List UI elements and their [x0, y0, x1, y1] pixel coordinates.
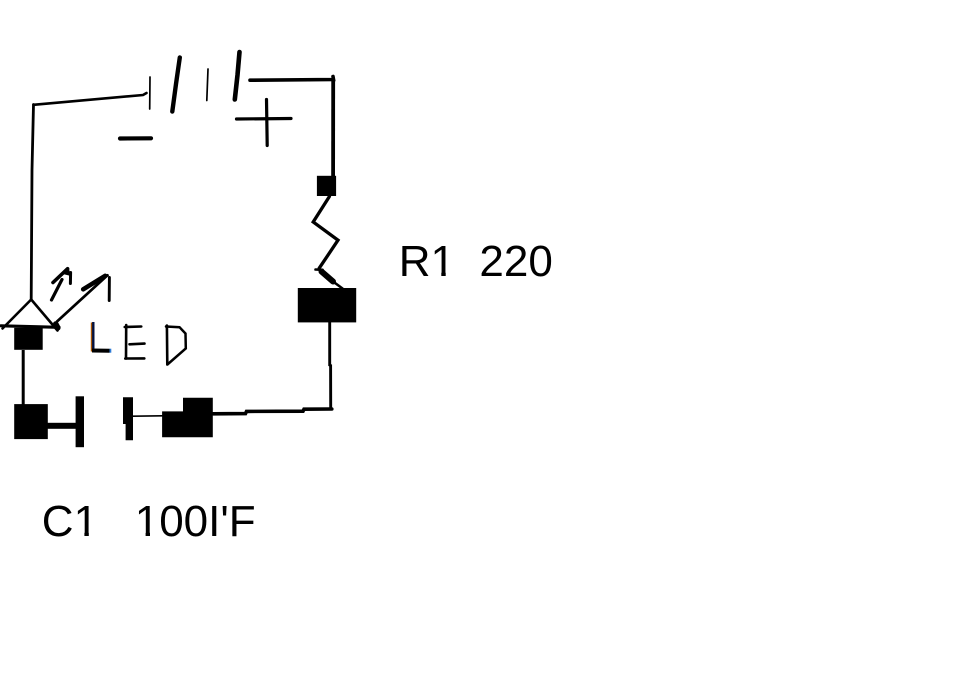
LED cathode terminal pad [14, 404, 48, 439]
svg-text:C1 100I'F: C1 100I'F [42, 497, 256, 546]
capacitor C1 right plate [123, 397, 133, 440]
minus sign (battery negative terminal) [120, 136, 151, 140]
handwritten letter L (with color fringe) [92, 322, 112, 352]
wire capacitor right plate to pad (thin) [133, 415, 162, 417]
handwritten letter D [166, 326, 186, 365]
wire LED cathode pad to capacitor left plate [46, 423, 76, 429]
wire right vertical down to resistor [331, 80, 335, 177]
plus sign (battery positive terminal) [237, 100, 292, 146]
label R1 220 [399, 237, 553, 286]
capacitor C1 right terminal pad [162, 398, 213, 438]
LED D1 body pad [14, 328, 43, 350]
battery B1 positive plate (long, right cell) [235, 52, 240, 100]
wire bottom horizontal (capacitor to resistor) [213, 409, 332, 414]
capacitor C1 left plate [76, 396, 84, 447]
battery B1 positive plate (long, slanted) [172, 58, 180, 112]
battery B1 negative plate (short, left) [149, 77, 151, 109]
wire LED to cathode pad [22, 350, 25, 405]
LED D1 triangle [3, 300, 58, 331]
label C1 100I'F [42, 497, 256, 546]
LED light arrow small [52, 267, 71, 300]
resistor R1 bottom terminal pad [298, 288, 356, 322]
LED light arrow large [56, 275, 110, 328]
resistor R1 zigzag body [313, 197, 342, 289]
resistor R1 top terminal pad [317, 176, 336, 196]
svg-text:R1 220: R1 220 [399, 237, 553, 286]
handwritten letter E [125, 325, 145, 359]
wire left vertical down to LED [31, 105, 33, 300]
wire resistor bottom vertical [330, 322, 331, 409]
wire battery-negative to LED anode (top-left horizontal) [34, 93, 147, 105]
wire battery positive to right vertical [250, 77, 334, 81]
battery B1 negative plate (short, right cell) [207, 69, 208, 101]
LED D1 cathode bar [1, 326, 59, 328]
